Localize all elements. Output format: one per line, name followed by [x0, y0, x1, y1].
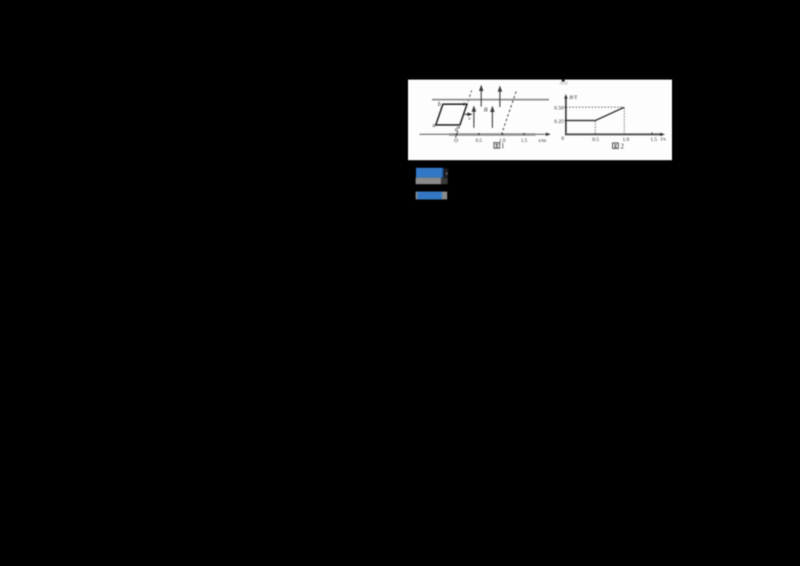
fig2 x tick 1.5	[651, 132, 653, 134]
fig1 velocity arrow v	[465, 113, 472, 115]
fig1 tick dot at 0.5	[478, 133, 480, 135]
fig1 x-axis line	[420, 133, 548, 135]
fig1 caption glyph tu	[494, 143, 500, 149]
faint gray smudge	[560, 81, 568, 84]
answer highlight blue block	[416, 168, 442, 178]
fig1 tick dot at 1.5	[523, 133, 525, 135]
fig1 top boundary line	[432, 99, 549, 101]
fig1 B field arrow tall left	[480, 86, 483, 106]
fig1 B field arrow short right	[491, 107, 494, 128]
fig1 conducting loop abcd	[436, 104, 467, 125]
fig1 tick dot at 1.0	[502, 133, 504, 135]
fig1 dashed field boundary line left (through O and c)	[456, 91, 472, 138]
fig2 y tick 0.50	[564, 106, 566, 108]
answer letter C light notch	[446, 172, 448, 175]
fig2 B(t) curve	[566, 107, 624, 120]
answer highlight gray dark tail	[441, 178, 448, 185]
black notch at panel top	[562, 80, 565, 82]
svg-text:O: O	[454, 138, 458, 144]
fig2 y tick 0.25	[564, 120, 566, 122]
fig1 B field arrow short left	[472, 107, 475, 128]
svg-text:1: 1	[501, 142, 505, 150]
svg-text:a: a	[433, 123, 436, 129]
svg-text:t/s: t/s	[661, 136, 666, 142]
svg-text:1.5: 1.5	[521, 138, 528, 144]
answer letter C dark blob	[444, 168, 448, 178]
fig2 y-axis arrowhead	[564, 94, 568, 99]
answer highlight blue dark edge	[442, 168, 444, 178]
answer highlight gray underlayer	[416, 178, 442, 185]
fig2 dashed horizontal at 0.50	[566, 106, 624, 108]
svg-text:c: c	[463, 102, 466, 108]
svg-text:2: 2	[621, 143, 625, 151]
fig2 dotted vertical at t=0.5	[594, 122, 596, 135]
fig1 dashed field boundary line right (through x=1.0)	[501, 91, 516, 135]
svg-text:x/m: x/m	[537, 138, 546, 144]
white figure panel	[408, 80, 672, 161]
svg-text:b: b	[438, 102, 441, 108]
fig2 y-axis	[565, 97, 567, 134]
fig2 x-axis arrowhead	[660, 133, 665, 137]
analysis highlight gray block	[416, 192, 448, 200]
fig2 dotted vertical at t=1.0	[623, 108, 625, 134]
analysis highlight blue block	[417, 192, 442, 200]
svg-text:0.50: 0.50	[554, 106, 564, 112]
fig1 x-axis arrowhead	[546, 133, 551, 137]
fig2 x-axis	[565, 133, 661, 135]
svg-text:0.5: 0.5	[592, 137, 599, 143]
svg-text:0.5: 0.5	[475, 138, 482, 144]
svg-text:0.25: 0.25	[554, 119, 564, 125]
svg-text:B: B	[484, 107, 488, 114]
svg-text:1.5: 1.5	[650, 137, 657, 143]
svg-text:B/T: B/T	[569, 95, 578, 101]
fig1 B field arrow tall right	[498, 87, 501, 107]
svg-text:0: 0	[561, 136, 564, 142]
fig1 x-axis thick gray band	[449, 133, 536, 135]
fig1 dot at O	[456, 133, 458, 135]
fig2 caption glyph tu	[613, 143, 619, 149]
